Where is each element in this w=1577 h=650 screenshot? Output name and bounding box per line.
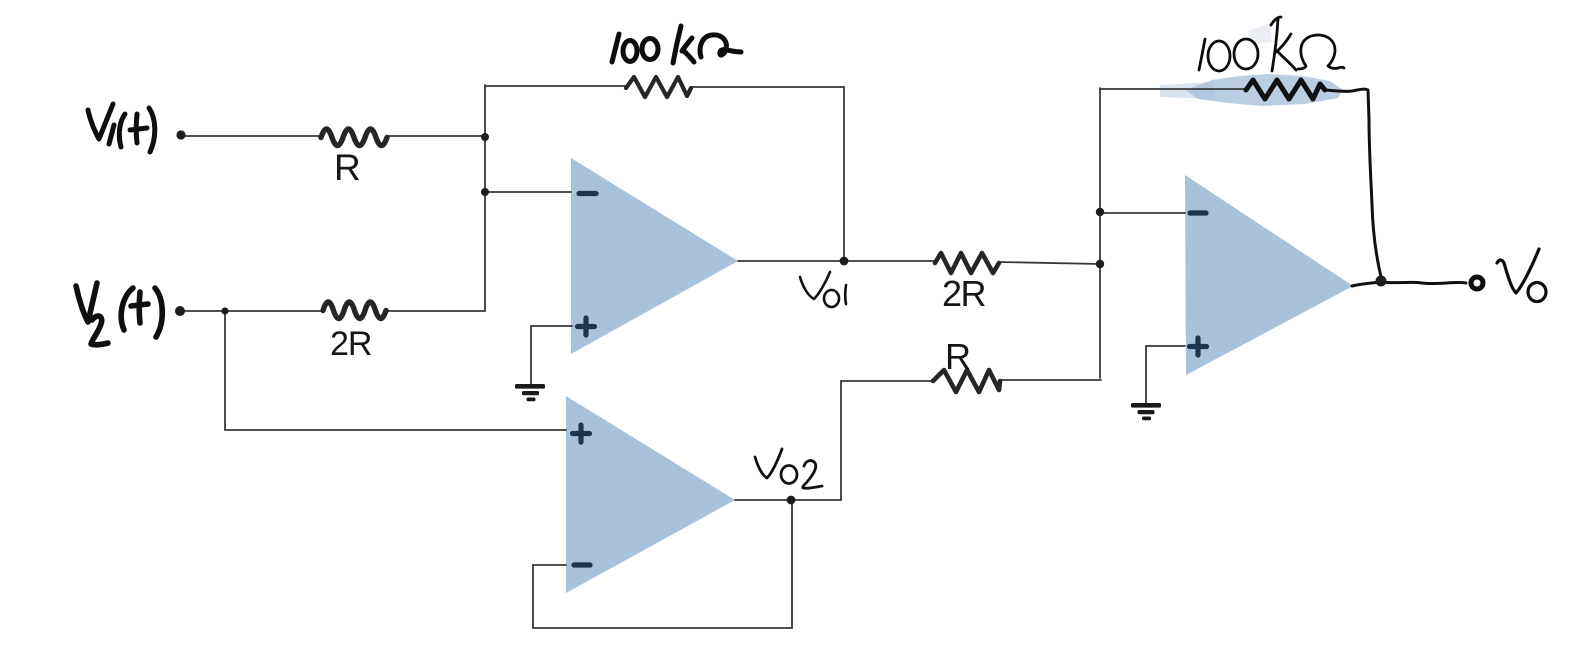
svg-text:R: R bbox=[945, 336, 971, 377]
svg-text:R: R bbox=[334, 147, 361, 188]
svg-text:2R: 2R bbox=[942, 273, 986, 314]
svg-text:2R: 2R bbox=[330, 325, 371, 363]
